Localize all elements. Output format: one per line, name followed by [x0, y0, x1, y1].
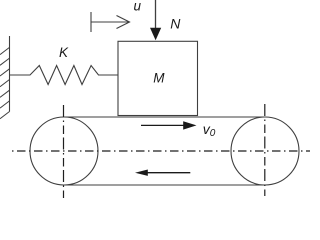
svg-text:u: u	[134, 0, 142, 14]
left pulley	[30, 117, 98, 185]
svg-text:v0: v0	[203, 121, 216, 139]
svg-text:K: K	[59, 45, 69, 60]
force arrow N	[150, 0, 161, 40]
spring K	[10, 66, 119, 85]
left pulley vertical centerline	[63, 105, 65, 198]
mass M	[118, 41, 198, 115]
belt bottom	[64, 184, 265, 186]
wall hatching	[0, 47, 10, 118]
right pulley	[231, 117, 299, 185]
wall	[9, 36, 11, 112]
svg-text:N: N	[170, 15, 181, 31]
horizontal centerline	[12, 150, 310, 152]
velocity arrow v0	[141, 121, 197, 129]
right pulley vertical centerline	[264, 104, 266, 196]
displacement arrow u	[91, 12, 130, 32]
belt return arrow	[135, 170, 190, 176]
svg-text:M: M	[153, 70, 165, 85]
belt top	[64, 116, 265, 118]
